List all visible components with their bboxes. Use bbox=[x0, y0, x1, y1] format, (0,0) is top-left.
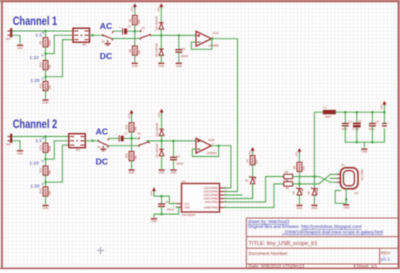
wire R10-R11 bbox=[45, 70, 47, 82]
svg-text:(ADC0/PB5): (ADC0/PB5) bbox=[204, 186, 219, 190]
junction diode clamp ch2 bbox=[160, 140, 163, 143]
junction bias node ch2 bbox=[130, 137, 133, 140]
junction IC2A output bbox=[211, 37, 214, 40]
svg-text:20k: 20k bbox=[134, 126, 138, 131]
ground (filter) bbox=[361, 149, 367, 154]
wire +5V to R15 bbox=[131, 115, 133, 123]
wire R12-R13 bbox=[45, 153, 47, 166]
svg-text:10k: 10k bbox=[48, 85, 52, 90]
resistor R16 (bias lower ch2) bbox=[125, 152, 138, 161]
wire input shield to ground ch2 bbox=[12, 141, 20, 150]
wire R3 to USB (net D+) bbox=[293, 176, 319, 178]
wire PB2 to reset pullup column bbox=[224, 183, 252, 198]
svg-text:GND: GND bbox=[184, 206, 190, 210]
junction USB gnd bbox=[345, 198, 348, 201]
zener diode D1 bbox=[245, 176, 257, 184]
wire R16 to ground bbox=[131, 161, 133, 169]
junction bus C3 bbox=[371, 141, 374, 144]
svg-text:C1: C1 bbox=[349, 120, 353, 124]
wire JP2 to switch ch2 bbox=[85, 140, 98, 142]
wire +5V arrow to rail bbox=[383, 106, 385, 113]
svg-text:R10: R10 bbox=[39, 62, 43, 67]
capacitor C2 (electrolytic) bbox=[352, 119, 362, 131]
svg-text:AC: AC bbox=[96, 127, 108, 137]
inductor L1 bbox=[323, 106, 336, 119]
node 1:10 junction ch2 bbox=[44, 158, 47, 161]
wire USB shield loop bbox=[335, 191, 346, 204]
wire divider top ch2 bbox=[45, 137, 47, 144]
svg-text:S3: S3 bbox=[137, 132, 141, 136]
svg-text:1:1: 1:1 bbox=[35, 138, 42, 144]
svg-text:900k: 900k bbox=[48, 145, 52, 151]
node 1:20 junction bbox=[44, 75, 47, 78]
+5V (D- pullup) bbox=[295, 148, 302, 157]
svg-text:Channel 1: Channel 1 bbox=[13, 14, 58, 28]
svg-text:IC1: IC1 bbox=[182, 180, 187, 184]
pin GND (pin 4) bbox=[176, 206, 182, 208]
wire tap 1:10 to JP2 bbox=[46, 141, 69, 159]
svg-text:R2: R2 bbox=[285, 177, 289, 181]
wire tap 1:10 to JP1 bbox=[46, 35, 74, 53]
ground (input ch1) bbox=[17, 45, 23, 50]
node 1:1 junction ch2 bbox=[44, 135, 47, 138]
svg-text:JP1: JP1 bbox=[82, 42, 87, 46]
wire tap 1:20 to JP2 bbox=[46, 145, 69, 182]
MCU IC1 ATtiny45 bbox=[182, 180, 220, 218]
pin PB0 (pin 5) bbox=[220, 207, 225, 209]
svg-text:REV:: REV: bbox=[381, 250, 391, 255]
capacitor C8 (MCU decoupling) bbox=[158, 200, 175, 211]
svg-text:90k: 90k bbox=[48, 64, 52, 69]
wire +5V to D4 bbox=[160, 8, 162, 22]
ground (divider ch1) bbox=[42, 100, 48, 105]
resistor R12 bbox=[39, 143, 52, 152]
svg-text:100n: 100n bbox=[369, 127, 375, 131]
resistor R5 (bias upper ch1) bbox=[128, 16, 141, 25]
svg-text:3V6: 3V6 bbox=[253, 176, 257, 181]
wire feedback loop IC2A bbox=[191, 39, 212, 50]
+5V (bias ch2) bbox=[127, 110, 134, 119]
wire +5V to R7 bbox=[252, 152, 254, 156]
svg-text:3V6: 3V6 bbox=[315, 189, 319, 194]
resistor R7 (reset pullup) bbox=[246, 156, 259, 165]
zener diode D3 bbox=[291, 187, 304, 195]
diode D7 (clamp down ch2) bbox=[155, 143, 164, 157]
resistor R11 bbox=[39, 81, 52, 90]
wire R11 to ground bbox=[45, 91, 47, 99]
svg-text:C5: C5 bbox=[128, 24, 132, 28]
wire VBUS riser to rail bbox=[314, 112, 322, 176]
junction C2 rail bbox=[356, 111, 359, 114]
junction at JP2 output bbox=[91, 140, 94, 143]
wire input to JP1 (net IN1) bbox=[12, 30, 73, 32]
pin stub rail right bbox=[383, 112, 385, 119]
svg-text:R3: R3 bbox=[285, 170, 289, 174]
zener diode D2 bbox=[306, 187, 319, 195]
svg-text:Sheet: 1/1: Sheet: 1/1 bbox=[356, 263, 377, 268]
svg-text:D4 1N4148: D4 1N4148 bbox=[155, 16, 159, 30]
ground (C6 ch1) bbox=[176, 63, 182, 68]
pin PB5 (pin 1) bbox=[220, 187, 225, 189]
wire crossover D+ to pin3 bbox=[319, 177, 337, 183]
wire R4 to D- row bbox=[298, 172, 300, 184]
svg-text:3V6: 3V6 bbox=[300, 189, 304, 194]
pin PB4 (pin 3) bbox=[220, 191, 225, 193]
resistor R4 (1k5 pullup) bbox=[292, 162, 305, 171]
wire rail to D7 bbox=[161, 141, 163, 149]
svg-text:10k: 10k bbox=[48, 190, 52, 195]
wire R7 to D1 bbox=[252, 165, 254, 177]
wire tap 1:20 to JP1 bbox=[46, 40, 74, 77]
wire C2 to bottom bus bbox=[356, 128, 358, 143]
wire ground bus left bbox=[154, 214, 162, 217]
+5V (rail output) bbox=[380, 101, 387, 110]
pin VCC (pin 8) bbox=[176, 203, 182, 205]
svg-text:LM358N: LM358N bbox=[209, 44, 219, 48]
wire PB0 to USB D- row bbox=[224, 184, 283, 208]
connector JP3 (channel 1 input) bbox=[6, 28, 13, 41]
pin numbers IC1 bbox=[173, 186, 227, 208]
svg-text:(ADC2/PB3): (ADC2/PB3) bbox=[204, 193, 219, 197]
wire DC path ch1 bbox=[113, 38, 141, 40]
pin PB3 (pin 2) bbox=[220, 194, 225, 196]
svg-text:R11: R11 bbox=[39, 83, 43, 88]
wire R15 to bias node ch2 bbox=[131, 132, 133, 138]
svg-text:100nF: 100nF bbox=[181, 54, 189, 58]
svg-text:115: 115 bbox=[354, 191, 359, 195]
svg-text:R13: R13 bbox=[39, 167, 43, 172]
svg-text:1:10: 1:10 bbox=[29, 55, 39, 61]
wire input to JP2 (net IN2) bbox=[12, 136, 69, 138]
wire divider top bbox=[45, 31, 47, 38]
switch S4 (AC/DC select ch2) bbox=[97, 138, 109, 151]
wire ground bus to GND pin bbox=[162, 207, 179, 214]
node 1:20 junction ch2 bbox=[44, 181, 47, 184]
wire R6 to ground bbox=[134, 55, 136, 62]
capacitor C7 (AC coupling ch2, polarized) bbox=[116, 132, 128, 142]
svg-text:100nF: 100nF bbox=[176, 161, 184, 165]
svg-text:JP3: JP3 bbox=[6, 37, 11, 41]
wire D2 to ground bbox=[313, 195, 315, 204]
svg-text:R12: R12 bbox=[39, 145, 43, 150]
svg-text:S2: S2 bbox=[102, 39, 106, 43]
junction diode clamp ch1 bbox=[160, 34, 163, 37]
svg-text:4.7µF: 4.7µF bbox=[352, 127, 359, 131]
svg-text:S1: S1 bbox=[142, 26, 146, 30]
svg-text:20k: 20k bbox=[137, 19, 141, 24]
wire D7 to ground bbox=[161, 156, 163, 168]
svg-text:1k5: 1k5 bbox=[302, 166, 306, 171]
junction C3 rail bbox=[371, 111, 374, 114]
svg-text:R14: R14 bbox=[39, 188, 43, 193]
ground (D3) bbox=[296, 205, 302, 210]
svg-text:D5 1N4148: D5 1N4148 bbox=[155, 43, 159, 57]
svg-text:C2: C2 bbox=[358, 119, 362, 123]
wire C9 to ground bbox=[173, 160, 175, 169]
svg-text:900k: 900k bbox=[48, 40, 52, 46]
svg-text:1:20: 1:20 bbox=[30, 78, 40, 84]
ground (C9 ch2) bbox=[170, 170, 176, 175]
resistor R2 (USB series D-) bbox=[284, 177, 293, 190]
junction C1 rail bbox=[344, 111, 347, 114]
wire +5V to R4 bbox=[298, 153, 300, 162]
wire PB3 stub bbox=[224, 194, 242, 196]
wire rail S3 to op-amp (net AIN2) bbox=[147, 140, 196, 142]
svg-text:(ADC1/PB2): (ADC1/PB2) bbox=[204, 197, 219, 201]
switch S3 (ch2) bbox=[137, 132, 149, 147]
svg-text:R6: R6 bbox=[128, 49, 132, 53]
wire D4 to rail bbox=[160, 29, 162, 35]
wire D3 to ground bbox=[298, 195, 300, 204]
svg-text:C6: C6 bbox=[182, 47, 186, 51]
svg-text:2k2: 2k2 bbox=[255, 159, 259, 164]
wire filter ground bus bbox=[345, 129, 384, 143]
wire rail to C6 bbox=[178, 35, 180, 49]
ground (USB) bbox=[343, 205, 349, 210]
wire feedback loop IC2B bbox=[192, 146, 218, 157]
wire +5V to R5 bbox=[134, 8, 136, 15]
svg-text:C3: C3 bbox=[376, 120, 380, 124]
wire rail to C2 bbox=[356, 112, 358, 122]
+5V (clamp ch1) bbox=[157, 3, 164, 12]
resistor R9 bbox=[39, 38, 52, 47]
wire JP1 to switch bbox=[90, 34, 103, 36]
resistor R6 (bias lower ch1) bbox=[128, 46, 141, 55]
wire IC2B output to MCU PB5 bbox=[211, 146, 231, 188]
svg-text:Date: 3/05/2010 17h28m13: Date: 3/05/2010 17h28m13 bbox=[249, 263, 305, 268]
wire rail to C1 bbox=[344, 112, 346, 123]
junction zener D3 on D- row bbox=[298, 183, 301, 186]
wire input shield to ground bbox=[12, 35, 20, 44]
svg-text:R4: R4 bbox=[292, 165, 296, 169]
junction +5V riser rail bbox=[383, 111, 386, 114]
pin PB1 (pin 6) bbox=[220, 201, 225, 203]
svg-text:D3: D3 bbox=[291, 191, 295, 195]
svg-text:AC: AC bbox=[100, 21, 112, 31]
wire rail to C3 bbox=[371, 112, 373, 123]
wire USB gnd pin down bbox=[345, 189, 347, 204]
svg-text:C7: C7 bbox=[124, 132, 128, 136]
svg-text:../2008/10/cheapest-dual-trace: ../2008/10/cheapest-dual-trace-scope-in-… bbox=[282, 229, 383, 234]
wire +5V rail bbox=[336, 111, 385, 113]
wire switch to C7 bbox=[109, 137, 118, 139]
ground (MCU) bbox=[151, 219, 157, 224]
svg-text:(AIN1/PB1): (AIN1/PB1) bbox=[205, 200, 219, 204]
junction VBUS riser on D+ row bbox=[313, 175, 316, 178]
ground (bias ch2) bbox=[128, 170, 134, 175]
pin 1 VBUS bbox=[337, 173, 341, 175]
diode D5 (clamp down ch1) bbox=[155, 43, 164, 57]
wire VBUS riser down through zener D2 bbox=[313, 177, 315, 189]
svg-text:(AREF/PB0): (AREF/PB0) bbox=[204, 206, 219, 210]
capacitor C9 bbox=[170, 155, 184, 166]
+5V (bias ch1) bbox=[130, 3, 137, 12]
svg-text:Document Number:: Document Number: bbox=[249, 251, 289, 256]
svg-text:D6 1N4148: D6 1N4148 bbox=[155, 122, 159, 136]
junction C8 top bbox=[160, 195, 163, 198]
diode D4 (clamp up ch1) bbox=[155, 16, 164, 30]
svg-text:1:1: 1:1 bbox=[35, 33, 42, 39]
node 1:1 junction bbox=[44, 30, 47, 33]
wire IC2A output to MCU PB4 bbox=[211, 39, 237, 192]
svg-text:R16: R16 bbox=[125, 153, 129, 158]
wire PB1 to USB D+ row bbox=[224, 177, 283, 203]
svg-text:DC: DC bbox=[100, 51, 112, 61]
wire +5V to D6 bbox=[161, 114, 163, 129]
svg-text:D2: D2 bbox=[306, 191, 310, 195]
op-amp IC2B bbox=[196, 138, 217, 155]
wire D5 to ground bbox=[160, 56, 162, 62]
diode D6 (clamp up ch2) bbox=[155, 122, 164, 136]
svg-text:IC2B: IC2B bbox=[208, 138, 214, 142]
connector JP4 (channel 2 input) bbox=[6, 134, 13, 147]
op-amp IC2A bbox=[196, 31, 219, 48]
svg-text:20k: 20k bbox=[134, 155, 138, 160]
wire rail S1 to op-amp (net AIN1) bbox=[151, 34, 196, 36]
capacitor C10 (rail right) bbox=[382, 119, 390, 126]
wire R13-R14 bbox=[45, 175, 47, 187]
svg-text:JP2: JP2 bbox=[76, 148, 81, 152]
svg-text:(ADC3/PB4): (ADC3/PB4) bbox=[204, 190, 219, 194]
junction bus C2 bbox=[356, 141, 359, 144]
svg-text:90k: 90k bbox=[48, 169, 52, 174]
ground (divider ch2) bbox=[42, 206, 48, 211]
svg-text:100n: 100n bbox=[342, 127, 348, 131]
svg-text:y/1.1: y/1.1 bbox=[381, 256, 391, 261]
resistor R3 (USB series D+) bbox=[284, 170, 293, 183]
capacitor C3 bbox=[369, 120, 380, 131]
wire D6 to rail bbox=[161, 136, 163, 141]
svg-text:R7: R7 bbox=[246, 158, 250, 162]
junction bias node ch1 bbox=[134, 30, 137, 33]
svg-text:R15: R15 bbox=[125, 124, 129, 129]
wire C6 to ground bbox=[178, 52, 180, 61]
svg-text:C8: C8 bbox=[165, 200, 169, 204]
wire bus gnd stub bbox=[363, 142, 365, 147]
svg-text:100nF: 100nF bbox=[167, 207, 175, 211]
wire R5 to bias node bbox=[134, 25, 136, 31]
wire R2 to USB (net D-) bbox=[293, 183, 319, 185]
svg-text:Channel 2: Channel 2 bbox=[13, 117, 58, 131]
pin 3 D+ bbox=[337, 181, 341, 183]
wire pin2 stub bbox=[330, 177, 337, 179]
svg-text:PN61729: PN61729 bbox=[360, 169, 364, 181]
resistor R14 bbox=[39, 187, 52, 196]
svg-text:68: 68 bbox=[286, 186, 289, 190]
svg-text:JP4: JP4 bbox=[6, 143, 11, 147]
ground (bias ch1) bbox=[132, 63, 138, 68]
wire crossover D- to pin1 bbox=[319, 174, 337, 184]
svg-text:10µH: 10µH bbox=[325, 114, 332, 118]
wire rail to D5 bbox=[160, 35, 162, 48]
resistor R10 bbox=[39, 61, 52, 70]
resistor R15 (bias upper ch2) bbox=[125, 123, 138, 132]
wire C8 to ground bus bbox=[161, 207, 163, 214]
svg-text:R9: R9 bbox=[39, 41, 43, 45]
wire C1 to bottom bus bbox=[344, 126, 346, 142]
capacitor C6 bbox=[175, 47, 188, 58]
+5V (clamp ch2) bbox=[157, 109, 164, 118]
svg-text:TINY45DIP: TINY45DIP bbox=[182, 213, 196, 217]
+5V (reset pullup) bbox=[248, 147, 255, 156]
ground (clamp ch2) bbox=[159, 170, 165, 175]
svg-text:R5: R5 bbox=[128, 18, 132, 22]
wire R9-R10 bbox=[45, 47, 47, 60]
wire switch to C5 bbox=[113, 30, 121, 32]
pin 2 D- bbox=[337, 177, 341, 179]
junction C9 ch2 bbox=[172, 140, 175, 143]
ground (input ch2) bbox=[17, 151, 23, 156]
pin PB2 (pin 7) bbox=[220, 198, 225, 200]
resistor R13 bbox=[39, 166, 52, 175]
USB connector X1 bbox=[340, 163, 363, 195]
switch S1 (ch1) bbox=[140, 26, 151, 39]
junction C6 ch1 bbox=[178, 34, 181, 37]
title block frame bbox=[246, 218, 398, 268]
svg-text:S4: S4 bbox=[97, 145, 101, 149]
wire C5 to S1 (net ACM1) bbox=[127, 30, 140, 32]
ground (D2) bbox=[311, 205, 317, 210]
connector JP2 (range select ch2) bbox=[69, 134, 86, 152]
svg-text:DC: DC bbox=[96, 157, 108, 167]
connector JP1 (range select ch1) bbox=[73, 28, 90, 46]
ground (clamp ch1) bbox=[158, 63, 164, 68]
svg-text:1:10: 1:10 bbox=[29, 161, 39, 167]
svg-text:D1: D1 bbox=[245, 179, 249, 183]
svg-text:VCC: VCC bbox=[184, 202, 190, 206]
junction ground bus bbox=[160, 213, 163, 216]
svg-text:D7 1N4148: D7 1N4148 bbox=[155, 143, 159, 157]
switch S2 (AC/DC select ch1) bbox=[102, 31, 114, 45]
wire bias node to R6 bbox=[134, 31, 136, 46]
capacitor C1 bbox=[342, 120, 353, 131]
wire C3 to bottom bus bbox=[371, 126, 373, 142]
capacitor C5 (AC coupling ch1, polarized) bbox=[119, 24, 131, 34]
wire to C8 bbox=[161, 196, 163, 204]
+5V (MCU supply) bbox=[149, 187, 156, 196]
wire D1 to PB2 row bbox=[252, 184, 254, 199]
junction at JP1 output bbox=[91, 34, 94, 37]
svg-text:20k: 20k bbox=[137, 49, 141, 54]
junction IC2B output bbox=[217, 144, 220, 147]
node 1:10 junction bbox=[44, 52, 47, 55]
wire bias node to R16 bbox=[131, 138, 133, 151]
origin cross marker bbox=[97, 247, 104, 254]
wire +5V to VCC pin bbox=[154, 192, 176, 204]
svg-text:IC2A: IC2A bbox=[213, 31, 219, 35]
svg-text:L1: L1 bbox=[323, 106, 326, 110]
svg-text:LM358N: LM358N bbox=[206, 151, 216, 155]
svg-text:TITLE: tiny_USB_scope_b1: TITLE: tiny_USB_scope_b1 bbox=[249, 241, 318, 247]
wire DC path ch2 bbox=[108, 145, 139, 147]
schematic frame border bbox=[0, 0, 400, 2]
wire D- row to D3 bbox=[298, 184, 300, 188]
wire R14 to ground bbox=[45, 196, 47, 204]
wire rail to C9 bbox=[173, 141, 175, 157]
wire C7 to S3 (net ACM2) bbox=[124, 137, 137, 139]
svg-text:C9: C9 bbox=[176, 155, 180, 159]
svg-text:X1: X1 bbox=[341, 163, 345, 167]
